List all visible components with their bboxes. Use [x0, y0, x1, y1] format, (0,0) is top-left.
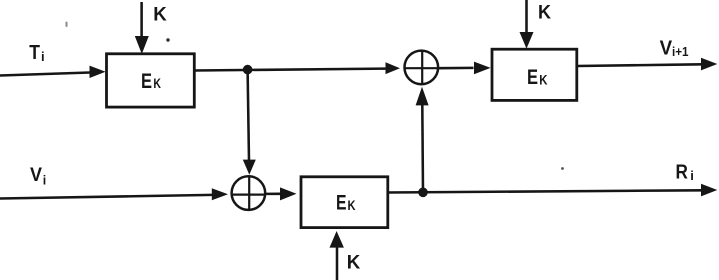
svg-text:T: T: [29, 42, 40, 64]
svg-text:E: E: [336, 191, 347, 215]
svg-text:V: V: [30, 165, 42, 186]
svg-text:i: i: [43, 173, 46, 187]
svg-text:R: R: [676, 161, 689, 183]
svg-text:K: K: [539, 72, 547, 87]
svg-text:i+1: i+1: [672, 44, 689, 59]
svg-text:i: i: [690, 168, 694, 183]
svg-text:K: K: [347, 251, 361, 273]
svg-text:K: K: [538, 2, 551, 24]
svg-text:K: K: [153, 76, 161, 91]
svg-text:E: E: [527, 65, 538, 89]
svg-text:V: V: [660, 38, 673, 60]
svg-text:K: K: [348, 198, 356, 213]
svg-text:i: i: [41, 49, 45, 64]
svg-text:K: K: [153, 3, 167, 25]
svg-text:E: E: [141, 69, 152, 93]
